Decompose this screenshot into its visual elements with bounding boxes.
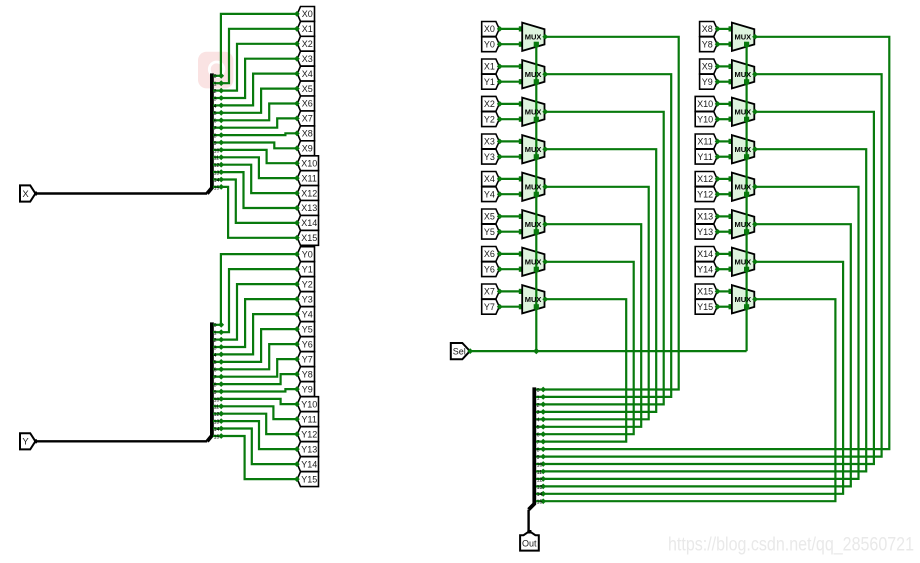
svg-text:Y9: Y9 [702,77,713,87]
wire Y5 splitter pin 5 to tunnel [221,329,297,362]
wire X11 splitter pin 11 to tunnel [221,157,297,178]
tunnel X7 [297,111,314,126]
wire X3 to mux U4 [499,140,522,142]
svg-text:3: 3 [214,96,217,102]
svg-text:9: 9 [214,390,217,396]
svg-text:Y3: Y3 [302,294,313,304]
mux U7 output node [542,259,548,265]
svg-text:13: 13 [214,171,220,177]
mux U5 [522,173,544,201]
svg-text:Y2: Y2 [484,114,495,124]
svg-text:5: 5 [214,360,217,366]
wire Y15 splitter pin 15 to tunnel [221,436,297,479]
svg-text:Y13: Y13 [301,444,317,454]
svg-text:11: 11 [537,470,542,476]
wire Y2 to mux U3 [499,118,522,120]
wire mux U11 output to combiner pin 10 [543,112,874,464]
svg-text:X8: X8 [702,24,713,34]
wire Y12 to mux U13 [717,193,732,195]
svg-text:Y10: Y10 [301,399,317,409]
wire X5 to mux U6 [499,215,522,217]
svg-text:Y1: Y1 [302,264,313,274]
svg-text:X8: X8 [302,129,313,139]
wire mux U13 output to combiner pin 12 [543,187,859,479]
tunnel X15 (mux U16 input 0) [695,284,717,299]
wire Y14 to mux U15 [717,268,732,270]
wire mux U2 output to combiner pin 1 [543,74,671,397]
svg-text:MUX: MUX [525,33,542,42]
svg-text:X9: X9 [702,62,713,72]
svg-text:4: 4 [214,353,217,359]
input pin X [20,185,35,201]
wire Y7 splitter pin 7 to tunnel [221,359,297,377]
wire Y3 splitter pin 3 to tunnel [221,299,297,347]
svg-text:Y8: Y8 [702,39,713,49]
svg-text:X5: X5 [302,84,313,94]
wire X13 splitter pin 13 to tunnel [221,172,297,208]
svg-text:X10: X10 [697,99,713,109]
wire X1 splitter pin 1 to tunnel [221,29,297,83]
svg-text:Y14: Y14 [697,264,713,274]
tunnel X11 [297,171,318,186]
tunnel Y7 [297,352,314,367]
wire mux U15 output to combiner pin 14 [543,262,843,494]
svg-text:X12: X12 [697,174,713,184]
wire Y8 to mux U9 [717,43,732,45]
tunnel Y3 [297,292,314,307]
wire mux U3 output to combiner pin 2 [543,112,664,405]
svg-text:X13: X13 [301,203,317,213]
wire Y3 to mux U4 [499,156,522,158]
tunnel X10 [297,156,318,171]
wire Y1 splitter pin 1 to tunnel [221,269,297,332]
svg-text:3: 3 [537,410,540,416]
tunnel Y10 [297,397,318,412]
tunnel Y1 (mux U2 input 1) [482,74,500,89]
svg-text:1: 1 [214,331,217,337]
input pin Y [20,433,35,449]
svg-text:X6: X6 [302,99,313,109]
tunnel Y6 [297,337,314,352]
mux U3 select pin [534,117,539,122]
tunnel Y2 [297,277,314,292]
tunnel Y5 (mux U6 input 1) [482,224,500,239]
tunnel Y3 (mux U4 input 1) [482,149,500,164]
mux U3 [522,98,544,126]
svg-text:8: 8 [214,134,217,140]
tunnel Y9 (mux U10 input 1) [700,74,718,89]
mux U5 output node [542,184,548,190]
junction Sel / left select rail [533,348,539,354]
svg-text:12: 12 [214,412,220,418]
wire mux U5 output to combiner pin 4 [543,187,649,419]
mux U15 output node [752,259,758,265]
svg-text:4: 4 [214,104,217,110]
wire X2 splitter pin 2 to tunnel [221,44,297,91]
wire mux U10 output to combiner pin 9 [543,74,882,456]
wire Sel to mux select rails [470,350,747,352]
splitter X (1x16 fan-out) [207,73,224,194]
svg-text:Y0: Y0 [484,39,495,49]
tunnel Y2 (mux U3 input 1) [482,112,500,127]
wire X0 to mux U1 [499,28,522,30]
mux U16 select pin [744,304,749,309]
wire X7 splitter pin 7 to tunnel [221,118,297,127]
svg-text:Y3: Y3 [484,152,495,162]
tunnel X4 [297,66,314,81]
mux U11 output node [752,109,758,115]
svg-text:Y: Y [22,437,29,448]
svg-text:MUX: MUX [734,70,751,79]
mux U14 [732,210,754,238]
mux U14 select pin [744,229,749,234]
tunnel Y5 [297,322,314,337]
svg-text:7: 7 [214,375,217,381]
svg-text:MUX: MUX [525,183,542,192]
mux U2 select pin [534,79,539,84]
tunnel Y15 (mux U16 input 1) [695,299,717,314]
svg-text:Y6: Y6 [484,264,495,274]
tunnel Y0 (mux U1 input 1) [482,37,500,52]
tunnel X1 (mux U2 input 0) [482,59,500,74]
svg-text:14: 14 [214,427,220,433]
svg-text:9: 9 [537,455,540,461]
svg-text:MUX: MUX [525,258,542,267]
mux U8 [522,285,544,313]
wire Y0 splitter pin 0 to tunnel [221,254,297,325]
wire X1 to mux U2 [499,65,522,67]
wire mux U16 output to combiner pin 15 [543,299,835,501]
svg-text:https://blog.csdn.net/qq_28560: https://blog.csdn.net/qq_28560721 [668,534,914,556]
svg-text:X15: X15 [697,287,713,297]
wire Y4 to mux U5 [499,193,522,195]
svg-text:5: 5 [537,425,540,431]
tunnel X8 (mux U9 input 0) [700,22,718,37]
svg-text:14: 14 [537,492,543,498]
mux U9 select pin [744,42,749,47]
tunnel X12 (mux U13 input 0) [695,172,717,187]
svg-text:MUX: MUX [734,145,751,154]
tunnel X0 [297,7,314,22]
mux U8 output node [542,296,548,302]
svg-text:0: 0 [537,388,540,394]
tunnel X9 (mux U10 input 0) [700,59,718,74]
svg-text:6: 6 [537,433,540,439]
svg-text:2: 2 [537,403,540,409]
mux U14 output node [752,221,758,227]
svg-text:0: 0 [214,74,217,80]
tunnel Y4 (mux U5 input 1) [482,187,500,202]
tunnel X5 (mux U6 input 0) [482,209,500,224]
mux U11 select pin [744,117,749,122]
svg-text:Out: Out [522,539,537,549]
tunnel X14 (mux U15 input 0) [695,247,717,262]
mux U7 [522,248,544,276]
wire X6 splitter pin 6 to tunnel [221,104,297,121]
svg-text:6: 6 [214,119,217,125]
svg-text:Y9: Y9 [302,384,313,394]
tunnel Y12 [297,427,318,442]
tunnel X11 (mux U12 input 0) [695,134,717,149]
mux U4 select pin [534,154,539,159]
tunnel X0 (mux U1 input 0) [482,22,500,37]
tunnel Y13 [297,442,318,457]
svg-text:X6: X6 [484,249,495,259]
svg-text:6: 6 [214,368,217,374]
splitter Out (16x1 combiner) [529,387,547,510]
svg-text:Y11: Y11 [697,152,712,162]
wire X14 splitter pin 14 to tunnel [221,180,297,223]
tunnel Y10 (mux U11 input 1) [695,112,717,127]
svg-text:X10: X10 [301,158,317,168]
svg-text:X2: X2 [302,39,313,49]
svg-text:Y4: Y4 [484,189,495,199]
svg-text:X7: X7 [302,114,313,124]
svg-text:8: 8 [214,383,217,389]
mux U10 select pin [744,79,749,84]
tunnel Y8 [297,367,314,382]
mux U9 output node [752,34,758,40]
svg-text:MUX: MUX [734,33,751,42]
svg-text:11: 11 [214,405,219,411]
mux U13 select pin [744,192,749,197]
wire X12 splitter pin 12 to tunnel [221,165,297,193]
wire Y13 splitter pin 13 to tunnel [221,421,297,449]
svg-text:X4: X4 [302,69,313,79]
tunnel X6 (mux U7 input 0) [482,247,500,262]
wire X8 to mux U9 [717,28,732,30]
svg-text:11: 11 [214,156,219,162]
wire Y14 splitter pin 14 to tunnel [221,429,297,465]
mux U16 output node [752,296,758,302]
svg-text:X14: X14 [697,249,713,259]
tunnel X3 [297,51,314,66]
svg-text:MUX: MUX [525,220,542,229]
wire mux U9 output to combiner pin 8 [543,37,889,449]
tunnel X13 [297,201,318,216]
tunnel Y6 (mux U7 input 1) [482,262,500,277]
wire Y9 to mux U10 [717,81,732,83]
wire bus Y to splitter [35,440,207,442]
svg-text:X0: X0 [484,24,495,34]
tunnel Y14 (mux U15 input 1) [695,262,717,277]
mux U15 [732,248,754,276]
wire X8 splitter pin 8 to tunnel [221,133,297,135]
svg-text:1: 1 [537,395,540,401]
svg-text:X3: X3 [484,137,495,147]
svg-text:10: 10 [537,462,543,468]
wire X0 splitter pin 0 to tunnel [221,14,297,76]
wire X14 to mux U15 [717,253,732,255]
svg-text:Y2: Y2 [302,279,313,289]
mux U16 [732,285,754,313]
svg-text:Y6: Y6 [302,339,313,349]
svg-text:Y13: Y13 [697,227,713,237]
wire Y10 splitter pin 10 to tunnel [221,399,297,404]
svg-text:X2: X2 [484,99,495,109]
svg-text:MUX: MUX [734,220,751,229]
svg-text:10: 10 [214,397,220,403]
svg-text:MUX: MUX [734,183,751,192]
mux U9 [732,23,754,51]
tunnel X6 [297,96,314,111]
wire X15 to mux U16 [717,290,732,292]
mux U13 output node [752,184,758,190]
svg-text:X15: X15 [301,233,317,243]
svg-text:15: 15 [214,185,220,191]
svg-text:8: 8 [537,448,540,454]
svg-text:MUX: MUX [734,108,751,117]
wire Y11 to mux U12 [717,156,732,158]
wire mux U1 output to combiner pin 0 [543,37,679,390]
svg-text:Y4: Y4 [302,309,313,319]
tunnel X12 [297,186,318,201]
mux U10 output node [752,71,758,77]
mux U6 [522,210,544,238]
wire mux U4 output to combiner pin 3 [543,149,656,412]
mux U1 select pin [534,42,539,47]
svg-text:X0: X0 [302,9,313,19]
mux U1 output node [542,34,548,40]
tunnel Y12 (mux U13 input 1) [695,187,717,202]
tunnel Y9 [297,382,314,397]
tunnel Y13 (mux U14 input 1) [695,224,717,239]
wire Y11 splitter pin 11 to tunnel [221,406,297,419]
wire Y6 splitter pin 6 to tunnel [221,344,297,369]
mux U6 select pin [534,229,539,234]
wire Y1 to mux U2 [499,81,522,83]
svg-text:X1: X1 [484,62,495,72]
wire Y13 to mux U14 [717,231,732,233]
svg-text:X1: X1 [302,24,313,34]
wire Y7 to mux U8 [499,306,522,308]
tunnel Y7 (mux U8 input 1) [482,299,500,314]
tunnel X4 (mux U5 input 0) [482,172,500,187]
mux U2 output node [542,71,548,77]
mux U6 output node [542,221,548,227]
wire mux U14 output to combiner pin 13 [543,224,851,486]
wire select rail left column [535,44,537,351]
svg-text:1: 1 [214,82,217,88]
svg-text:Y12: Y12 [301,429,317,439]
svg-text:5: 5 [214,111,217,117]
mux U7 select pin [534,267,539,272]
wire X15 splitter pin 15 to tunnel [221,187,297,238]
splitter Y (1x16 fan-out) [207,322,224,441]
svg-text:3: 3 [214,345,217,351]
wire X4 to mux U5 [499,178,522,180]
svg-text:MUX: MUX [525,295,542,304]
svg-text:Y8: Y8 [302,369,313,379]
wire Y0 to mux U1 [499,43,522,45]
wire Y15 to mux U16 [717,306,732,308]
svg-text:7: 7 [537,440,540,446]
wire mux U6 output to combiner pin 5 [543,224,641,427]
svg-text:13: 13 [214,420,220,426]
svg-text:0: 0 [214,323,217,329]
tunnel X10 (mux U11 input 0) [695,96,717,111]
wire select rail right column [745,44,747,351]
wire X11 to mux U12 [717,140,732,142]
svg-text:X11: X11 [697,137,712,147]
svg-text:7: 7 [214,126,217,132]
mux U12 output node [752,146,758,152]
wire Y8 splitter pin 8 to tunnel [221,374,297,384]
tunnel X14 [297,216,318,231]
svg-text:Y7: Y7 [484,302,495,312]
wire X7 to mux U8 [499,290,522,292]
wire X10 to mux U11 [717,103,732,105]
svg-text:Y11: Y11 [302,414,317,424]
wire X10 splitter pin 10 to tunnel [221,150,297,163]
wire Y4 splitter pin 4 to tunnel [221,314,297,354]
input pin Sel [451,343,470,359]
svg-text:12: 12 [537,477,543,483]
svg-text:X7: X7 [484,287,495,297]
tunnel X15 [297,230,318,245]
tunnel Y11 [297,412,318,427]
svg-text:12: 12 [214,163,220,169]
mux U1 [522,23,544,51]
tunnel X13 (mux U14 input 0) [695,209,717,224]
wire X2 to mux U3 [499,103,522,105]
svg-text:Y1: Y1 [484,77,495,87]
mux U12 [732,135,754,163]
mux U12 select pin [744,154,749,159]
svg-text:X11: X11 [302,173,317,183]
tunnel Y14 [297,457,318,472]
wire mux U8 output to combiner pin 7 [543,299,626,441]
svg-text:X: X [22,189,29,200]
svg-text:Y7: Y7 [302,354,313,364]
svg-text:15: 15 [214,434,220,440]
svg-text:X14: X14 [301,218,317,228]
svg-text:Y15: Y15 [697,302,713,312]
svg-text:Y10: Y10 [697,114,713,124]
svg-text:MUX: MUX [734,295,751,304]
mux U15 select pin [744,267,749,272]
wire X5 splitter pin 5 to tunnel [221,89,297,113]
tunnel X9 [297,141,314,156]
wire bus combiner to Out [527,510,529,532]
tunnel Y0 [297,247,314,262]
tunnel X2 [297,36,314,51]
wire X9 to mux U10 [717,65,732,67]
wire bus X to splitter [35,192,207,194]
svg-text:Y5: Y5 [302,324,313,334]
mux U4 output node [542,146,548,152]
svg-text:X12: X12 [301,188,317,198]
mux U2 [522,60,544,88]
tunnel X3 (mux U4 input 0) [482,134,500,149]
svg-text:MUX: MUX [525,70,542,79]
node Sel pin [467,348,473,354]
svg-text:MUX: MUX [525,145,542,154]
mux U8 select pin [534,304,539,309]
wire Y6 to mux U7 [499,268,522,270]
wire mux U7 output to combiner pin 6 [543,262,634,434]
wire Y9 splitter pin 9 to tunnel [221,389,297,391]
wire Y2 splitter pin 2 to tunnel [221,284,297,340]
wire Y12 splitter pin 12 to tunnel [221,414,297,434]
svg-text:13: 13 [537,485,543,491]
tunnel Y11 (mux U12 input 1) [695,149,717,164]
tunnel Y4 [297,307,314,322]
tunnel X1 [297,21,314,36]
svg-text:MUX: MUX [525,108,542,117]
svg-text:Y12: Y12 [697,189,713,199]
wire X9 splitter pin 9 to tunnel [221,143,297,149]
